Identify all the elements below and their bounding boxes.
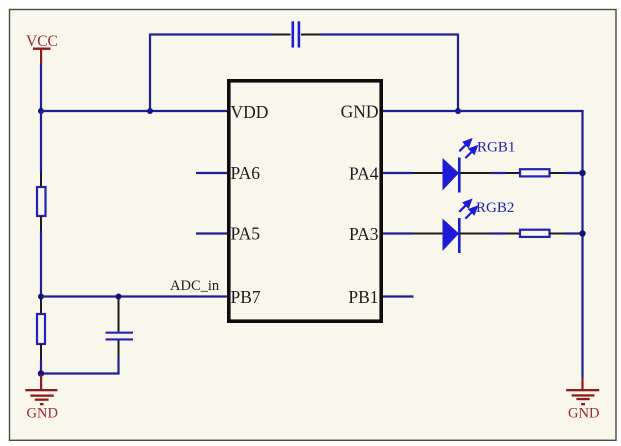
resistor R1 left (37, 172, 46, 231)
svg-text:PA4: PA4 (349, 164, 379, 184)
wire VDD net horizontal (41, 110, 227, 112)
capacitor C2 lower (106, 299, 134, 357)
svg-text:PA3: PA3 (349, 224, 379, 244)
junction ADC node left (38, 294, 44, 300)
wire VCC vertical to VDD node (40, 64, 42, 111)
svg-text:ADC_in: ADC_in (170, 278, 220, 294)
IC U1 (229, 81, 381, 321)
resistor R3 row PA4 (506, 169, 565, 176)
capacitor C1 (273, 21, 321, 47)
ground symbol GND right (566, 378, 599, 422)
wire bottom ground horizontal (41, 372, 120, 374)
wire pin PA5 stub (196, 232, 227, 234)
svg-text:GND: GND (568, 406, 599, 422)
power symbol VCC (26, 33, 58, 64)
junction right rail PA3 (579, 230, 585, 236)
wire PA4 mid segment (490, 172, 506, 174)
svg-text:PA5: PA5 (231, 224, 261, 244)
wire PA3 pin stub (383, 232, 412, 234)
wire R4 to right rail (565, 232, 583, 234)
LED D2 RGB2 (412, 200, 490, 253)
wire C2 bottom vertical (117, 357, 119, 374)
svg-text:RGB2: RGB2 (476, 200, 514, 216)
wire R3 to right rail (565, 172, 583, 174)
wire PA4 pin stub (383, 172, 412, 174)
wire GND net right vertical (581, 111, 583, 378)
wire pin PB1 stub (383, 295, 414, 297)
svg-text:PB7: PB7 (231, 287, 261, 307)
wire C1 top-left horizontal (150, 33, 273, 35)
wire C1 right vertical branch (457, 34, 459, 112)
wire pin PA6 stub (196, 172, 227, 174)
svg-text:RGB1: RGB1 (477, 140, 515, 156)
junction GND/C1 branch (455, 108, 461, 114)
svg-text:GND: GND (341, 102, 379, 122)
wire ADC_in horizontal to PB7 (41, 295, 227, 297)
wire C1 top-right horizontal (321, 33, 459, 35)
svg-text:VCC: VCC (26, 33, 58, 50)
junction ground node left (38, 370, 44, 376)
wire left column upper segment (40, 111, 42, 173)
junction right rail PA4 (579, 170, 585, 176)
junction VCC/VDD node (38, 108, 44, 114)
svg-text:PB1: PB1 (348, 287, 378, 307)
wire left column lower segment (40, 231, 42, 297)
ground symbol GND left (25, 375, 58, 422)
junction ADC node / C2 branch (116, 294, 122, 300)
wire PA3 mid segment (490, 232, 506, 234)
LED D1 RGB1 (412, 140, 490, 193)
resistor R2 lower left (37, 299, 45, 360)
wire R2 bottom to ground node (40, 360, 42, 374)
svg-text:VDD: VDD (231, 102, 269, 122)
junction VDD/C1 branch (147, 108, 153, 114)
wire C1 left vertical branch (149, 34, 151, 112)
resistor R4 row PA3 (506, 230, 565, 237)
svg-text:GND: GND (27, 406, 58, 422)
svg-text:PA6: PA6 (231, 163, 261, 183)
wire GND net horizontal (383, 110, 584, 112)
